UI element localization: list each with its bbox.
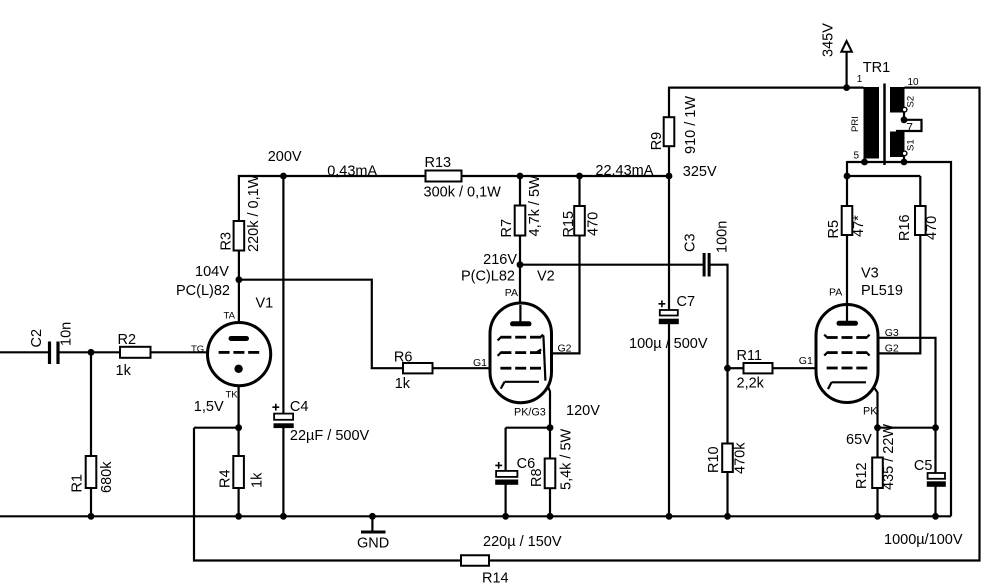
svg-text:1k: 1k: [250, 472, 266, 488]
tube V3 grid G1 row: [827, 367, 838, 370]
wire bottom feedback line: [193, 559, 981, 561]
resistor R14: [461, 555, 489, 566]
svg-text:R11: R11: [737, 348, 763, 364]
svg-text:220µ / 150V: 220µ / 150V: [483, 534, 562, 550]
svg-text:100µ / 500V: 100µ / 500V: [629, 336, 708, 352]
tube V3 anode plate: [839, 321, 856, 326]
transformer TR1 core: [883, 84, 886, 166]
svg-text:P(C)L82: P(C)L82: [461, 269, 515, 285]
wire TR1 pin 5 stub: [863, 158, 865, 162]
svg-text:C5: C5: [914, 458, 933, 474]
svg-text:R3: R3: [219, 232, 235, 251]
tube V2 G3 to cathode strap: [543, 336, 545, 381]
svg-text:R9: R9: [649, 132, 665, 151]
wire input node to R2: [59, 351, 120, 353]
tube V3 grid G3 row: [827, 336, 838, 339]
svg-text:470: 470: [586, 212, 602, 236]
resistor R8: [545, 459, 556, 489]
svg-text:V2: V2: [537, 269, 555, 285]
wire 216V line to C3: [520, 264, 703, 266]
wire R5 node to R16: [846, 175, 920, 177]
svg-text:GND: GND: [357, 536, 389, 552]
wire R15 top lead: [578, 176, 580, 206]
svg-text:R2: R2: [118, 332, 137, 348]
wire R16 bottom to V3 G2: [866, 235, 920, 353]
resistor R7: [515, 206, 526, 236]
svg-text:PK/G3: PK/G3: [514, 407, 546, 419]
node TR1 pin 7: [901, 116, 908, 123]
node 65V: [874, 424, 881, 431]
wire right edge drop from pin 10: [978, 87, 980, 562]
svg-text:65V: 65V: [846, 432, 872, 448]
wire R6 to V2 G1: [433, 367, 502, 369]
svg-text:216V: 216V: [483, 252, 517, 268]
svg-text:R1: R1: [70, 474, 86, 493]
svg-text:S1: S1: [906, 139, 917, 151]
wire 200V rail left segment: [238, 175, 240, 221]
wire R7 top lead: [519, 176, 521, 206]
node R11 R10 junction: [724, 365, 731, 372]
wire R16 top lead: [919, 176, 921, 206]
wire TR1 pin 7 loop: [896, 120, 922, 131]
ground rail junction dots: [88, 513, 95, 520]
svg-text:R16: R16: [897, 214, 913, 241]
svg-text:S2: S2: [906, 96, 917, 108]
svg-text:TK: TK: [226, 390, 239, 401]
svg-text:R6: R6: [394, 350, 413, 366]
node 325V: [666, 173, 673, 180]
wire R12 top lead: [876, 428, 878, 458]
node G3 C5 junction: [932, 424, 939, 431]
resistor R5: [842, 206, 853, 235]
wire feedback riser: [193, 428, 195, 562]
svg-text:5,4k / 5W: 5,4k / 5W: [559, 428, 575, 490]
tube V3 anode lead inside: [846, 306, 848, 323]
tube V2 grid G3 row: [500, 336, 511, 339]
svg-text:10n: 10n: [59, 322, 75, 346]
wire TR1 pin 9 stub: [903, 157, 905, 163]
svg-text:C2: C2: [29, 329, 45, 348]
node rail R7 junction: [517, 173, 524, 180]
svg-text:200V: 200V: [268, 149, 302, 165]
node 200V: [280, 173, 287, 180]
wire C7 top lead from 325V node: [668, 176, 670, 310]
tube V2 cathode: [501, 382, 539, 389]
svg-text:22µF / 500V: 22µF / 500V: [290, 428, 370, 444]
wire R5 bottom to V3 anode lead: [846, 235, 848, 322]
wire R2 to V1 grid TG: [151, 351, 220, 353]
resistor R9: [664, 117, 675, 146]
transformer TR1 primary winding: [864, 87, 880, 159]
wire R15 bottom to V2 G2: [543, 236, 580, 354]
wire V1 anode lead: [238, 280, 240, 338]
wire TR1 secondary common: [847, 162, 951, 516]
svg-text:0,43mA: 0,43mA: [327, 164, 377, 180]
node TR1 pin 9: [901, 159, 908, 166]
resistor R12: [872, 458, 883, 489]
svg-text:435 / 22W: 435 / 22W: [881, 424, 897, 490]
svg-text:5: 5: [854, 151, 860, 162]
wire R3 bottom lead to 104V node: [238, 251, 240, 281]
svg-text:G3: G3: [885, 327, 899, 339]
transformer TR1 secondary S1 winding: [890, 132, 905, 158]
wire R1 top lead: [90, 352, 92, 456]
transformer TR1 secondary S2 winding: [890, 87, 905, 113]
svg-text:R8: R8: [529, 468, 545, 487]
wire TR1 pin 10 to right edge: [905, 86, 981, 88]
capacitor C6: [496, 471, 517, 477]
wire V2 cathode node to C6: [506, 427, 550, 429]
power 345V arrow: [841, 41, 852, 52]
wire C7 bottom lead: [668, 324, 670, 516]
node 216V: [517, 261, 524, 268]
svg-text:47*: 47*: [851, 215, 867, 237]
resistor R1: [86, 456, 97, 488]
svg-text:TA: TA: [224, 310, 236, 321]
node TR1 pin 5: [861, 159, 868, 166]
tube V2 grid G1 row: [500, 367, 511, 370]
wire pins common down to R5 node: [846, 161, 848, 177]
resistor R13: [426, 171, 462, 182]
svg-text:PK: PK: [863, 406, 878, 418]
wire R5 top lead: [846, 176, 848, 206]
resistor R3: [234, 221, 245, 251]
wire R11 node to R11: [728, 367, 744, 369]
wire C4 to ground rail: [282, 427, 284, 516]
wire ground rail: [0, 515, 951, 517]
svg-text:910 / 1W: 910 / 1W: [683, 96, 699, 154]
svg-text:1000µ/100V: 1000µ/100V: [884, 532, 963, 548]
wire V2 anode lead: [519, 265, 521, 323]
svg-text:345V: 345V: [821, 23, 837, 57]
svg-text:470: 470: [924, 216, 940, 240]
svg-text:120V: 120V: [566, 403, 600, 419]
wire V2 cathode lead: [539, 381, 550, 428]
svg-text:R12: R12: [854, 462, 870, 489]
wire input line: [0, 351, 49, 353]
resistor R2: [120, 347, 151, 358]
wire V1 cathode node to feedback riser: [194, 427, 239, 429]
wire R7 bottom lead to 216V node: [519, 236, 521, 266]
capacitor C7: [660, 310, 678, 316]
svg-text:1k: 1k: [116, 363, 132, 379]
tube V2 anode lead inside: [519, 305, 521, 324]
svg-text:G2: G2: [558, 342, 572, 354]
capacitor C5: [928, 473, 945, 479]
capacitor C3: [703, 253, 706, 277]
svg-text:104V: 104V: [195, 264, 229, 280]
wire 104V node to V2 grid riser: [239, 280, 403, 369]
svg-text:R15: R15: [561, 211, 577, 238]
wire C3 to R11 node riser: [710, 265, 727, 370]
node 345V junction: [843, 84, 850, 91]
svg-text:325V: 325V: [683, 164, 717, 180]
svg-text:PC(L)82: PC(L)82: [176, 283, 230, 299]
node V1 cathode junction: [235, 424, 242, 431]
svg-text:680k: 680k: [99, 461, 115, 493]
wire rail R13 to 325V node: [462, 175, 671, 177]
wire 345V riser: [845, 51, 847, 89]
tube V1 grid: [219, 351, 230, 354]
tube V1 anode plate: [231, 336, 247, 341]
svg-text:7: 7: [906, 120, 913, 134]
resistor R16: [915, 206, 926, 235]
tube V1 cathode: [234, 365, 242, 373]
capacitor C4: [274, 414, 293, 420]
svg-text:G1: G1: [473, 357, 487, 369]
wire 65V node to C5 node: [878, 427, 936, 429]
svg-text:4,7k / 5W: 4,7k / 5W: [527, 175, 543, 237]
svg-text:R4: R4: [218, 469, 234, 488]
tube V2 grid G2 row: [500, 351, 511, 354]
wire R8 top lead: [549, 428, 551, 459]
resistor R11: [744, 363, 773, 373]
wire 345V supply line: [669, 86, 864, 88]
ground symbol GND: [371, 516, 373, 530]
svg-text:C7: C7: [677, 294, 696, 310]
svg-text:TG: TG: [191, 344, 204, 355]
wire C6 bottom lead: [505, 485, 507, 517]
svg-text:PL519: PL519: [861, 283, 903, 299]
wire R9 bottom lead: [668, 146, 670, 177]
svg-text:1k: 1k: [395, 376, 411, 392]
wire 200V node drop to C4: [282, 176, 284, 414]
svg-text:300k / 0,1W: 300k / 0,1W: [424, 185, 502, 201]
svg-text:PA: PA: [505, 287, 518, 299]
node V2 cathode 120V junction: [547, 424, 554, 431]
svg-text:470k: 470k: [733, 442, 749, 474]
svg-text:R5: R5: [826, 220, 842, 239]
svg-text:C4: C4: [290, 399, 309, 415]
wire V3 cathode lead: [866, 382, 878, 428]
svg-text:TR1: TR1: [863, 60, 890, 76]
resistor R15: [574, 206, 585, 236]
node input junction: [88, 349, 95, 356]
wire V3 G3 lead: [868, 338, 936, 428]
wire V1 cathode lead: [238, 369, 240, 428]
svg-text:100n: 100n: [715, 221, 731, 253]
tube V2 anode plate: [513, 321, 530, 326]
svg-text:G2: G2: [885, 342, 899, 354]
tube V3 grid G2 row: [827, 351, 838, 354]
svg-text:C3: C3: [683, 233, 699, 252]
svg-text:R13: R13: [425, 155, 452, 171]
wire R9 top corner: [668, 87, 670, 118]
svg-text:2,2k: 2,2k: [737, 376, 765, 392]
node 104V: [236, 276, 243, 283]
svg-text:R10: R10: [706, 446, 722, 473]
svg-text:V1: V1: [256, 296, 274, 312]
wire R4 bottom lead: [238, 488, 240, 516]
tube V3 cathode: [828, 382, 866, 389]
wire C5 bottom lead: [934, 487, 936, 517]
wire R11 to V3 G1: [773, 367, 828, 369]
resistor R10: [722, 444, 733, 473]
resistor R4: [233, 456, 244, 488]
wire TR1 pin 7 stub: [903, 112, 905, 120]
wire R4 top lead: [238, 428, 240, 456]
tube V2 envelope: [490, 303, 552, 403]
capacitor C2: [48, 342, 51, 365]
wire R12 bottom lead: [876, 488, 878, 516]
svg-text:1: 1: [857, 74, 863, 85]
node rail R15 junction: [576, 173, 583, 180]
svg-text:R14: R14: [482, 571, 509, 587]
svg-text:PA: PA: [829, 287, 842, 299]
svg-text:10: 10: [908, 77, 920, 88]
wire R8 bottom lead: [549, 488, 551, 516]
svg-text:V3: V3: [861, 266, 879, 282]
tube V3 envelope: [816, 305, 878, 403]
wire C5 top lead: [934, 428, 936, 473]
svg-text:G1: G1: [799, 355, 813, 367]
svg-text:22,43mA: 22,43mA: [595, 163, 653, 179]
svg-text:PRI: PRI: [850, 116, 861, 132]
node R5 R16 junction: [844, 173, 851, 180]
wire R1 bottom lead: [90, 488, 92, 516]
wire C6 top lead: [505, 428, 507, 471]
svg-text:1,5V: 1,5V: [194, 399, 224, 415]
wire R10 bottom lead: [726, 472, 728, 516]
wire R10 top lead: [726, 368, 728, 443]
svg-text:220k / 0,1W: 220k / 0,1W: [246, 174, 262, 252]
svg-text:R7: R7: [499, 219, 515, 238]
resistor R6: [403, 363, 433, 373]
tube V1 envelope: [208, 323, 271, 386]
